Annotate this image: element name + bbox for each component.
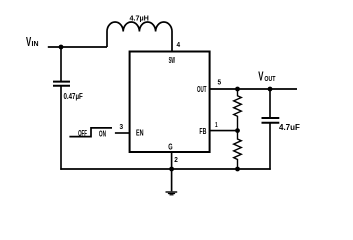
svg-text:SW: SW (169, 56, 176, 65)
svg-text:OUT: OUT (264, 74, 275, 83)
ground symbol (166, 192, 178, 195)
svg-text:4.7µH: 4.7µH (130, 14, 149, 23)
wire EN pin3 (115, 132, 130, 134)
node VOUT label (258, 69, 275, 84)
wire ground bus bottom (60, 168, 270, 170)
wire VOUT horizontal (238, 88, 298, 90)
resistor R2 feedback bottom (234, 131, 242, 169)
svg-text:5: 5 (218, 77, 222, 86)
svg-text:V: V (258, 69, 263, 84)
svg-text:FB: FB (199, 127, 206, 136)
svg-text:EN: EN (136, 128, 144, 137)
svg-text:0.47µF: 0.47µF (64, 92, 83, 101)
svg-text:3: 3 (120, 122, 124, 131)
node VOUT junction at capacitor (268, 87, 273, 92)
svg-text:1: 1 (215, 120, 218, 129)
svg-text:OUT: OUT (197, 85, 207, 94)
svg-text:OFF: OFF (78, 129, 87, 138)
svg-text:2: 2 (174, 155, 178, 164)
wire G pin2 to ground (171, 152, 173, 191)
capacitor C_IN 0.47uF (53, 47, 83, 170)
node ground bus junction right (235, 167, 240, 172)
capacitor C_OUT 4.7uF (262, 89, 301, 170)
svg-text:4.7uF: 4.7uF (279, 123, 300, 132)
resistor R1 feedback top (234, 89, 242, 131)
node ground junction (169, 167, 174, 172)
op-amp U1 IC body (130, 52, 210, 153)
svg-text:G: G (168, 143, 172, 152)
node FB junction (235, 128, 240, 133)
inductor L1 4.7uH (107, 14, 172, 51)
node VIN junction (59, 45, 64, 50)
pin 5 wire OUT (210, 88, 238, 90)
svg-text:IN: IN (32, 39, 39, 48)
node VIN label (26, 34, 39, 49)
node OUT junction at resistor top (235, 87, 240, 92)
waveform OFF/ON enable signal (69, 128, 112, 138)
wire FB pin1 (210, 130, 238, 132)
wire VIN horizontal (48, 46, 107, 48)
svg-text:ON: ON (99, 129, 106, 138)
